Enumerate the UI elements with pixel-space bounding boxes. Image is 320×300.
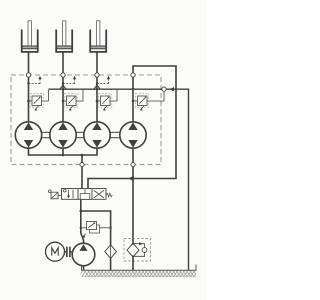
- up arrow on line 2: [60, 85, 66, 89]
- relief gallery wire (y=90) to tank line: [49, 89, 189, 271]
- wire node A2 to motor M2: [62, 77, 64, 122]
- wire node A1 to motor M1: [28, 77, 30, 122]
- tank: [81, 265, 197, 277]
- junction line3/gallery: [96, 88, 98, 90]
- node A1: [26, 73, 30, 77]
- wire branch to filter F1: [81, 211, 111, 245]
- motor M4: [120, 122, 146, 148]
- bypass check valve: [133, 244, 145, 248]
- node B (gallery): [162, 87, 166, 91]
- solenoid: [51, 192, 58, 199]
- coupling motor-pump: [65, 247, 73, 257]
- drain elbow at node A1: [27, 76, 41, 85]
- drain elbow at node A2: [62, 76, 76, 85]
- node A3: [95, 73, 99, 77]
- motor M3: [84, 122, 110, 148]
- pump P1: [72, 243, 95, 266]
- wire top loop node A4 to motor M4: [133, 66, 176, 122]
- cell 2 detail: [80, 194, 90, 200]
- wire filter F1 to tank: [110, 258, 112, 275]
- wire cylinder1 to node A1: [28, 53, 30, 73]
- shaft M1-M2: [42, 132, 50, 137]
- shaft M3-M4: [110, 132, 120, 137]
- filter F2 with bypass: [124, 239, 151, 262]
- arrow at junction E: [128, 176, 134, 182]
- directional valve V1: [48, 189, 112, 200]
- wire feed to valve return junction: [134, 89, 176, 178]
- manifold wire under motors: [29, 148, 98, 155]
- wire motor M4 to filter F2: [132, 148, 134, 162]
- wire valve A port elbow: [88, 179, 130, 189]
- junction line2/gallery: [62, 88, 64, 90]
- junction P-line/branch: [80, 210, 83, 213]
- filter F1: [105, 245, 117, 259]
- cell 3 crossed arrows: [94, 190, 104, 198]
- relief valve RV4: [132, 92, 164, 111]
- relief valve RV2: [62, 90, 83, 111]
- wire cylinder2 to node A2: [62, 53, 64, 73]
- cylinder CYL2: [56, 21, 72, 52]
- junction line4/gallery: [132, 88, 134, 90]
- wire node A3 to motor M3: [96, 77, 98, 122]
- node C (manifold port): [80, 162, 84, 166]
- cylinder CYL3: [90, 21, 106, 52]
- relief valve RV1: [27, 90, 48, 111]
- body: [62, 189, 107, 200]
- wire pump suction to tank: [83, 266, 85, 277]
- junction manifold/P riser: [81, 154, 84, 157]
- junction motor2/manifold: [62, 154, 65, 157]
- drain elbow at node A3: [96, 76, 110, 85]
- motor M1: [15, 122, 41, 148]
- enclosure (dashed assembly boundary): [11, 75, 161, 165]
- electric motor M: [46, 242, 65, 261]
- pilot circle: [48, 190, 51, 193]
- junction E: [132, 177, 135, 180]
- cell 1 detail: [63, 189, 66, 192]
- node A4: [131, 73, 135, 77]
- node A2: [61, 73, 65, 77]
- motor M2: [50, 122, 76, 148]
- relief valve RV5 (pump bypass): [80, 222, 112, 238]
- spring: [106, 193, 112, 197]
- up arrow on line 3: [94, 85, 100, 89]
- wire valve T port to pump line: [81, 199, 84, 243]
- shaft M2-M3: [76, 132, 84, 137]
- wire filter F2 to tank: [132, 257, 134, 276]
- cylinder CYL1: [22, 21, 38, 52]
- wire manifold to valve P port: [81, 155, 83, 162]
- wire cylinder3 to node A3: [96, 53, 98, 73]
- arrow into gallery from feed: [170, 87, 175, 91]
- node D (return port): [131, 162, 135, 166]
- relief valve RV3: [96, 90, 117, 111]
